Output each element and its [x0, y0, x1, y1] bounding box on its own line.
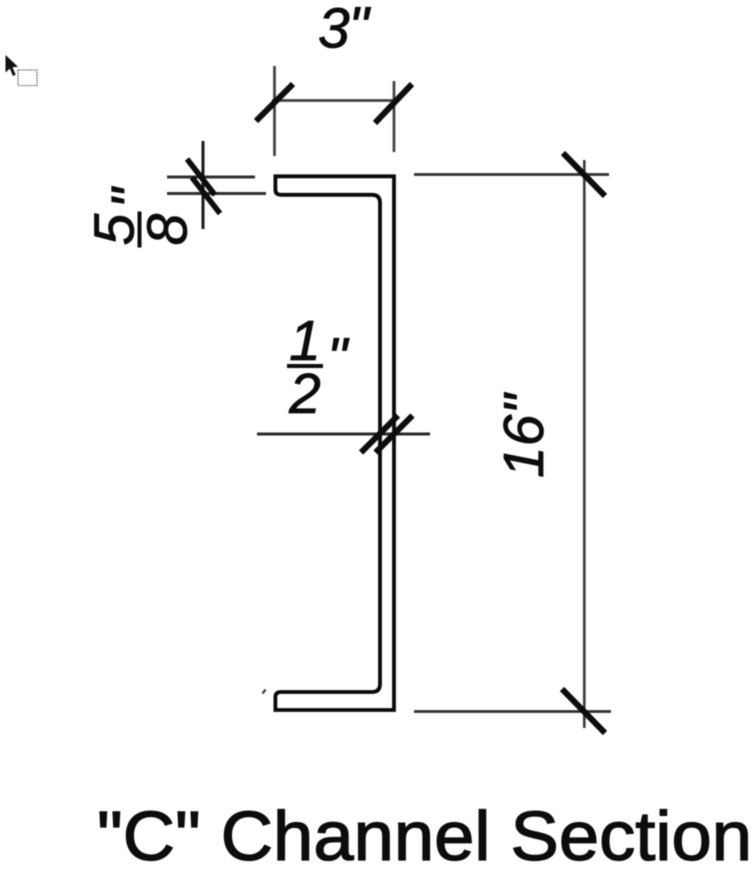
dimension line — [257, 433, 430, 436]
extension line left — [273, 66, 276, 156]
dimension line vertical — [583, 160, 586, 728]
mouse cursor arrow — [6, 55, 19, 76]
text 5/8" rotated — [83, 186, 200, 248]
tick upper — [187, 159, 215, 195]
C channel section outline — [275, 176, 394, 710]
svg-text:": " — [327, 326, 350, 390]
text 1/2" — [287, 309, 350, 426]
tick left — [256, 84, 293, 121]
tick lower — [192, 178, 220, 214]
tick right — [376, 416, 413, 453]
tick bottom — [562, 689, 605, 733]
extension line bottom — [414, 710, 611, 713]
svg-text:": " — [100, 186, 164, 209]
svg-text:"C" Channel Section: "C" Channel Section — [97, 797, 752, 875]
svg-text:8: 8 — [136, 213, 200, 245]
tick top — [563, 153, 605, 196]
dimension line — [272, 99, 396, 102]
dimension line vertical — [202, 141, 205, 229]
extension line upper — [167, 176, 255, 179]
extension line right — [393, 81, 396, 152]
svg-text:3: 3 — [318, 0, 350, 61]
svg-text:": " — [349, 0, 372, 59]
stray mark — [263, 690, 266, 694]
text 16" rotated — [492, 392, 556, 478]
tick left — [361, 416, 398, 453]
svg-text:2: 2 — [288, 362, 321, 426]
svg-text:16": 16" — [492, 392, 556, 478]
extension line lower — [167, 192, 266, 195]
tick right — [375, 84, 412, 123]
extension line top — [414, 173, 609, 176]
selection dashed rect — [18, 70, 37, 86]
